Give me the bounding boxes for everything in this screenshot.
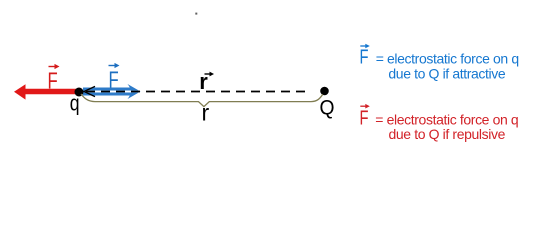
svg-text:due to Q if attractive: due to Q if attractive — [388, 65, 506, 81]
svg-text:r: r — [199, 69, 208, 94]
brace (olive) for distance r — [81, 94, 323, 107]
charge Q dot — [320, 87, 329, 96]
svg-text:r: r — [202, 100, 210, 126]
legend blue: F vector — [360, 44, 370, 69]
svg-text:F: F — [360, 107, 369, 129]
r vector open arrowhead (points left at q) — [84, 86, 95, 96]
blue force arrow on q (pointing right) — [83, 84, 141, 99]
stray gray dot — [195, 13, 197, 15]
label F red (diagram) — [48, 64, 60, 94]
svg-text:q: q — [70, 91, 80, 116]
svg-text:= electrostatic force on q: = electrostatic force on q — [375, 111, 518, 127]
svg-text:Q: Q — [320, 96, 335, 119]
label F blue (diagram) — [109, 63, 120, 93]
svg-text:F: F — [109, 67, 119, 93]
svg-text:F: F — [360, 46, 369, 68]
r vector dashed line — [86, 91, 308, 93]
red force arrow on q (pointing left) — [14, 84, 79, 99]
legend red: F vector — [360, 104, 370, 129]
charge q dot — [75, 88, 84, 97]
label r vector above line — [199, 69, 214, 94]
svg-text:F: F — [48, 68, 58, 94]
svg-text:= electrostatic force on q: = electrostatic force on q — [376, 50, 519, 66]
r vector dashed line (white casing over blue arrow) — [84, 91, 139, 93]
svg-text:due to Q if repulsive: due to Q if repulsive — [389, 126, 506, 142]
